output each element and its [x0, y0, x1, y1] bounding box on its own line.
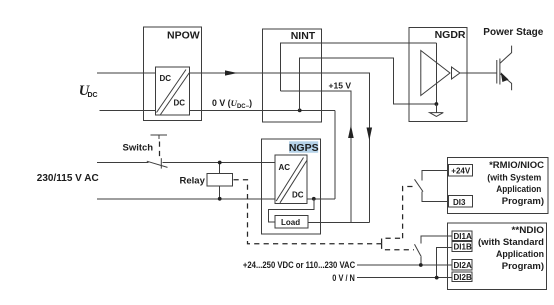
wire UDC- input	[100, 109, 156, 111]
IGBT emitter arrow	[501, 72, 509, 82]
svg-text:230/115 V AC: 230/115 V AC	[37, 173, 99, 184]
svg-text:Program): Program)	[502, 196, 544, 207]
driver amplifier triangle	[421, 51, 450, 96]
svg-text:DC: DC	[160, 74, 172, 83]
wire load return	[308, 221, 369, 223]
svg-text:Application: Application	[496, 249, 544, 260]
svg-text:NINT: NINT	[291, 30, 316, 42]
block RMIO/NIOC outline	[448, 158, 548, 214]
wire AC line bottom	[97, 198, 275, 200]
wire gate supply down through driver	[435, 43, 437, 104]
junction dot 0V/DI1B	[435, 276, 439, 280]
contact blade RMIO	[415, 179, 424, 191]
svg-text:Application: Application	[496, 184, 541, 195]
switch contact tick	[160, 158, 162, 168]
wire driver output to IGBT gate	[460, 72, 496, 74]
wire contact to DI3	[422, 192, 449, 202]
svg-text:DC: DC	[174, 99, 186, 108]
IGBT collector lead	[500, 46, 512, 64]
svg-text:NGPS: NGPS	[289, 142, 319, 154]
terminal DI1A box	[452, 231, 472, 241]
linkage dashed jog up	[382, 238, 403, 244]
relay stub top	[219, 163, 221, 174]
contact blade NDIO	[415, 244, 422, 256]
wire load feed from DC output	[269, 199, 314, 222]
svg-text:Power Stage: Power Stage	[483, 27, 543, 38]
wire AC line top (right of switch)	[163, 162, 276, 164]
diagonal 2 (NPOW converter)	[161, 73, 190, 115]
svg-text:*RMIO/NIOC: *RMIO/NIOC	[489, 160, 544, 171]
arrow up on +15V line	[348, 125, 354, 138]
wire NGPS DC output	[307, 198, 335, 200]
terminal DI2A box	[452, 260, 472, 270]
ground symbol	[430, 113, 444, 117]
linkage dashed vertical to RMIO contact	[403, 187, 414, 239]
wire AC line top (left of switch)	[97, 162, 149, 164]
wire DI1A to contact	[421, 236, 452, 244]
transistor IGBT gate bar	[496, 60, 498, 84]
diagonal 2 (NGPS converter)	[280, 161, 307, 203]
svg-text:DC: DC	[292, 191, 304, 200]
svg-text:DI2B: DI2B	[454, 273, 472, 282]
svg-text:(with Standard: (with Standard	[478, 237, 544, 248]
switch actuator dashed	[159, 142, 161, 158]
ground stub	[435, 104, 437, 113]
svg-text:Relay: Relay	[180, 175, 206, 186]
svg-text:DI1A: DI1A	[454, 232, 472, 241]
wire +24V to contact	[422, 171, 449, 181]
diagonal 1 (NPOW converter)	[157, 70, 187, 113]
wire 0V/N line	[357, 277, 452, 279]
wire DI1B drop	[437, 248, 452, 278]
relay linkage dashed to digital inputs	[234, 180, 382, 244]
svg-text:NPOW: NPOW	[167, 30, 200, 42]
block NDIO outline	[448, 223, 547, 290]
svg-text:(with System: (with System	[487, 172, 541, 183]
relay stub bottom	[219, 186, 221, 199]
linkage dashed jog down to NDIO contact	[382, 244, 414, 250]
block NINT outline	[262, 29, 321, 122]
label NGPS highlight	[289, 141, 318, 153]
junction dot DC output	[312, 197, 316, 201]
switch T-tick	[158, 135, 160, 139]
block NGPS outline	[262, 139, 321, 234]
wire contact to supply line	[420, 257, 422, 265]
terminal DI2B box	[452, 272, 472, 282]
svg-text:DI2A: DI2A	[454, 261, 472, 270]
junction dot driver common	[435, 102, 439, 106]
svg-text:+24V: +24V	[451, 167, 471, 176]
wire VDC supply line	[357, 264, 452, 266]
svg-text:DC: DC	[88, 92, 98, 99]
junction dot 0V / NINT	[298, 109, 302, 113]
driver output buffer triangle	[452, 67, 460, 79]
transistor IGBT body bar	[499, 59, 501, 85]
svg-text:DI3: DI3	[453, 198, 466, 207]
svg-text:+24...250 VDC or 110...230 VAC: +24...250 VDC or 110...230 VAC	[243, 260, 356, 270]
switch blade	[147, 161, 168, 167]
wire NINT gate supply H1	[280, 43, 436, 91]
svg-text:DI1B: DI1B	[454, 242, 472, 251]
svg-text:AC: AC	[279, 163, 291, 172]
converter AC/DC box (NGPS)	[275, 155, 307, 204]
svg-text:Switch: Switch	[123, 142, 154, 153]
wire NINT ground H2	[300, 58, 437, 110]
wire NPOW output to NINT (goes right, turns down at x=369)	[190, 73, 370, 222]
terminal +24V box	[449, 164, 473, 176]
wire 0V down to NGPS DC output	[334, 110, 336, 198]
svg-text:0 V / N: 0 V / N	[332, 273, 355, 283]
load box	[275, 216, 308, 229]
svg-text:**NDIO: **NDIO	[512, 225, 545, 236]
arrow right on NPOW output	[225, 70, 238, 75]
wire UDC+ input	[97, 72, 155, 74]
diagonal 1 (NGPS converter)	[276, 158, 303, 202]
junction dot relay top	[218, 161, 222, 165]
IGBT emitter lead	[500, 74, 512, 91]
relay coil box	[207, 174, 232, 186]
converter DC/DC box (NPOW)	[155, 67, 189, 115]
wire 0V UDC- line to x=335	[190, 109, 336, 111]
block NGDR outline	[409, 28, 467, 122]
terminal DI1B box	[452, 241, 472, 251]
block NPOW outline	[143, 27, 201, 121]
svg-text:NGDR: NGDR	[435, 29, 466, 41]
svg-text:Program): Program)	[502, 261, 544, 272]
switch T-bar	[151, 134, 168, 136]
wire +15V feed	[280, 91, 351, 222]
junction dot relay bottom	[218, 197, 222, 201]
terminal DI3 box	[449, 196, 473, 207]
svg-text:Load: Load	[281, 218, 300, 227]
arrow down on x=369 line	[367, 128, 373, 141]
svg-text:+15 V: +15 V	[329, 81, 352, 91]
junction dot supply/contact	[419, 263, 423, 267]
